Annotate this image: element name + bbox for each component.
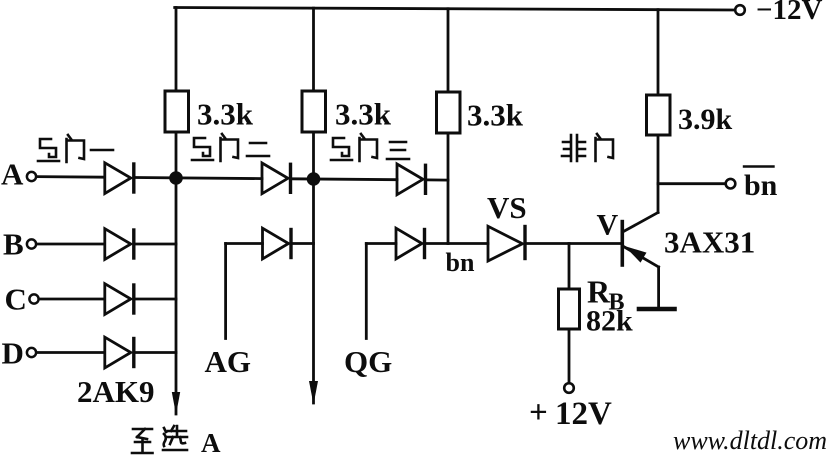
diode VS (488, 226, 523, 261)
svg-text:+: + (529, 395, 548, 431)
diode VD3 input C (105, 284, 131, 315)
wire AG vertical (224, 244, 227, 339)
wire bn node to VS (448, 242, 488, 245)
svg-text:QG: QG (344, 344, 392, 379)
wire emitter down (657, 267, 660, 307)
resistor R1 3.3k (165, 91, 189, 132)
wire v3 upper (447, 9, 450, 92)
arrow gate1 output (172, 392, 180, 415)
terminal -12V (735, 5, 745, 15)
transistor collector lead (624, 213, 659, 232)
wire row A left (37, 175, 105, 178)
svg-text:3AX31: 3AX31 (664, 225, 755, 260)
ground (639, 307, 675, 312)
svg-text:B: B (3, 227, 24, 262)
transistor V base bar (620, 222, 624, 265)
label zhixuan A (132, 429, 153, 453)
svg-text:A: A (1, 157, 24, 192)
wire QG to v3 (427, 242, 449, 245)
svg-text:82k: 82k (586, 305, 633, 338)
wire AG horizontal (226, 242, 263, 245)
terminal +12V (564, 383, 574, 393)
wire RB to +12V (568, 329, 571, 383)
resistor RB 82k (559, 289, 580, 329)
wire v3 lower (447, 133, 450, 244)
svg-text:AG: AG (205, 344, 252, 379)
wire v4 upper (657, 10, 660, 95)
wire AG to v2 (293, 242, 314, 245)
wire row C (39, 298, 105, 301)
terminal input D (27, 348, 36, 357)
svg-text:www.dltdl.com: www.dltdl.com (673, 426, 826, 455)
wire row A mid2 (293, 177, 398, 181)
wire row C right (136, 298, 177, 301)
label gate3 name (yu men san) (331, 138, 352, 160)
svg-text:C: C (5, 282, 27, 317)
transistor emitter lead (624, 247, 659, 268)
diode VD4 input D (105, 337, 131, 368)
svg-text:A: A (201, 428, 221, 455)
diode VD5 gate2 from A (262, 163, 288, 194)
svg-text:bn: bn (446, 248, 475, 277)
node dot A-gate2 (307, 172, 321, 186)
svg-text:3.3k: 3.3k (335, 97, 392, 132)
svg-text:bn: bn (744, 169, 778, 202)
resistor R4 3.9k (647, 95, 671, 135)
diode VD1 input A (105, 163, 131, 194)
svg-text:−12V: −12V (756, 0, 823, 26)
wire row A mid (136, 178, 263, 179)
transistor emitter arrow (PNP) (625, 246, 647, 263)
node dot A-gate1 (169, 171, 183, 185)
diode VD8 gate3 from QG (396, 228, 422, 259)
wire row B right (136, 243, 177, 246)
resistor R2 3.3k (302, 91, 326, 132)
svg-text:D: D (2, 336, 24, 371)
wire v2 lower with arrow shaft (312, 132, 315, 403)
wire v1 lower with arrow shaft (175, 132, 178, 414)
terminal bn output (726, 179, 736, 189)
terminal input C (29, 294, 38, 303)
diode VD2 input B (105, 229, 131, 260)
diode VD6 gate2 from AG (263, 228, 289, 259)
label gate1 name (yu men yi) (38, 139, 59, 161)
wire VS to base (527, 242, 621, 245)
wire output bn (658, 182, 726, 185)
wire RB branch down (568, 244, 571, 290)
terminal input B (27, 239, 36, 248)
wire QG vertical (365, 244, 368, 339)
label NOT-gate name (fei men) (562, 135, 585, 161)
wire v4 lower collector (657, 135, 660, 213)
wire v1 upper (175, 8, 178, 92)
diode VD7 gate3 from A (397, 164, 423, 195)
svg-text:3.9k: 3.9k (678, 103, 733, 136)
terminal input A (27, 172, 36, 181)
svg-text:VS: VS (487, 190, 527, 225)
resistor R3 3.3k (437, 92, 461, 133)
wire QG horizontal (366, 242, 396, 245)
label gate2 name (yu men er) (192, 138, 213, 160)
wire row D right (136, 351, 177, 354)
svg-text:2AK9: 2AK9 (77, 374, 155, 409)
svg-text:12V: 12V (555, 396, 612, 432)
wire top -12V bus (175, 8, 735, 11)
wire v2 upper (312, 8, 315, 91)
arrow gate2 output (309, 381, 318, 405)
svg-text:3.3k: 3.3k (197, 97, 254, 132)
wire row D (37, 351, 105, 354)
svg-text:3.3k: 3.3k (467, 98, 524, 133)
overline of bn (744, 165, 774, 167)
wire row A right (428, 178, 449, 181)
svg-text:V: V (597, 209, 619, 242)
wire row B (37, 243, 105, 246)
